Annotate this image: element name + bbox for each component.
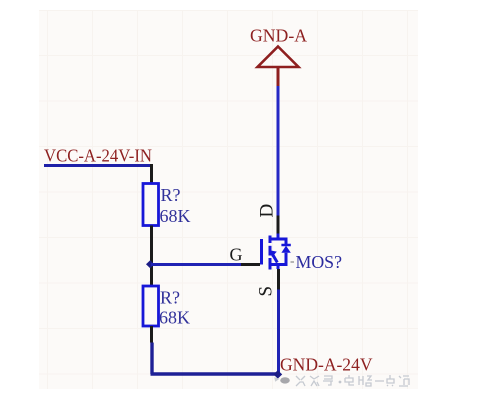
watermark text 公众号·电路一点通 (approximated strokes) (296, 375, 409, 386)
电 (345, 375, 354, 385)
wire black below R1 to junction (150, 226, 153, 287)
svg-text:68K: 68K (159, 308, 190, 328)
body diode triangle (281, 246, 290, 253)
svg-text:MOS?: MOS? (296, 252, 343, 272)
transistor MOS? symbol (262, 234, 287, 270)
resistor R2 body (143, 286, 159, 326)
wire bottom rail (151, 372, 280, 375)
路 (359, 376, 372, 386)
众 (310, 376, 319, 386)
svg-text:68K: 68K (160, 206, 191, 226)
wire black corner to R1 (150, 166, 152, 184)
号 (323, 376, 333, 385)
svg-text:D: D (257, 204, 278, 218)
公 (296, 376, 305, 386)
corner fill (150, 343, 153, 375)
resistor R1 body (143, 184, 159, 226)
dot separator (339, 381, 342, 384)
channel segments (269, 236, 272, 244)
source bar (270, 253, 287, 265)
body arrow head (270, 250, 277, 257)
wire blue down to bottom rail (151, 343, 154, 373)
body diode cathode bar (281, 244, 290, 247)
drain bar (270, 239, 286, 245)
gate plate (260, 239, 263, 265)
wire gate pin lead black (241, 263, 260, 266)
wire gate net blue (151, 263, 241, 266)
svg-text:GND-A-24V: GND-A-24V (280, 355, 373, 375)
wire VCC horizontal (44, 164, 150, 167)
svg-text:S: S (256, 286, 277, 297)
drain stub (277, 234, 280, 240)
junction node at divider (146, 260, 154, 268)
source stub (277, 265, 280, 270)
watermark logo (274, 377, 290, 383)
一 (375, 380, 384, 382)
svg-text:R?: R? (161, 185, 181, 205)
svg-text:GND-A: GND-A (250, 26, 307, 46)
点 (387, 375, 394, 386)
wire red stem below triangle (277, 66, 280, 86)
power symbol GND-A triangle (258, 47, 299, 68)
svg-text:G: G (230, 245, 243, 265)
svg-text:VCC-A-24V-IN: VCC-A-24V-IN (44, 146, 152, 166)
svg-text:R?: R? (160, 288, 180, 308)
wire black below R2 (150, 326, 153, 343)
junction node bottom (273, 370, 282, 378)
wire black drain pin lead (277, 216, 280, 236)
body arrow shaft (272, 253, 278, 263)
wire black source pin lead (277, 269, 280, 290)
wire blue source net (277, 290, 280, 375)
wire blue drain net (277, 86, 280, 216)
通 (399, 376, 409, 386)
